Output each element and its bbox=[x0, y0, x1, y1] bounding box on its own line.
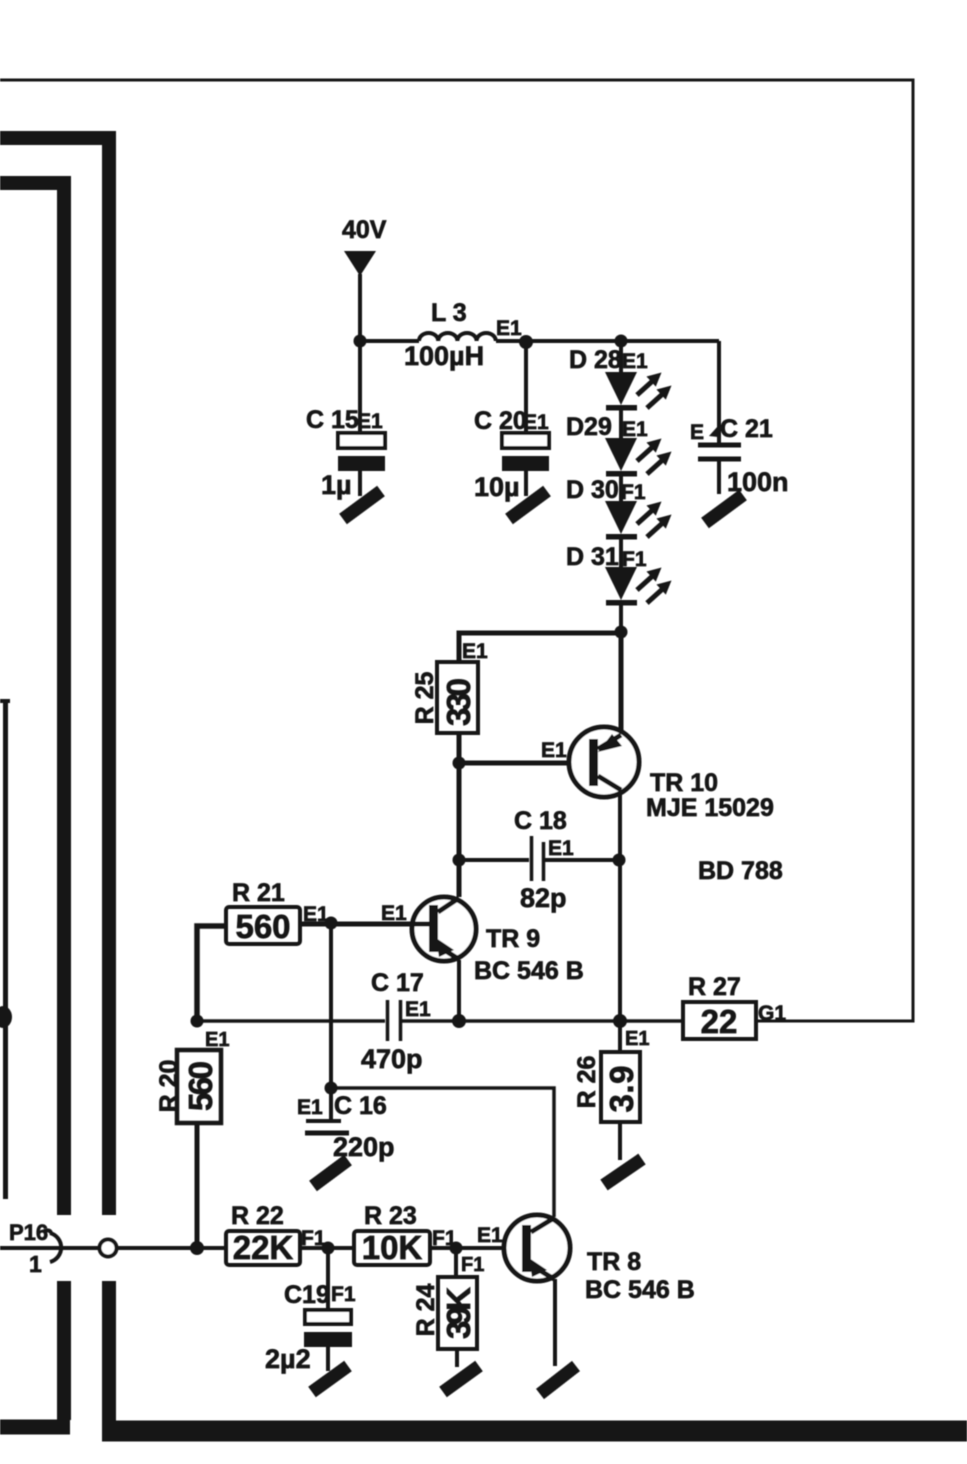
svg-text:C 15: C 15 bbox=[306, 406, 359, 434]
wire TR10 base bbox=[459, 761, 589, 766]
svg-text:2µ2: 2µ2 bbox=[265, 1344, 311, 1374]
svg-text:22K: 22K bbox=[233, 1229, 294, 1266]
svg-text:L 3: L 3 bbox=[431, 299, 467, 327]
svg-text:E1: E1 bbox=[205, 1029, 229, 1051]
svg-text:40V: 40V bbox=[342, 216, 387, 244]
svg-text:1µ: 1µ bbox=[321, 470, 352, 500]
LED D29 bbox=[566, 413, 672, 501]
wire TR10 collector bbox=[618, 790, 622, 1021]
wire LED chain top bbox=[619, 341, 623, 372]
resistor R26 bbox=[573, 1021, 649, 1160]
svg-text:1: 1 bbox=[29, 1251, 42, 1277]
svg-text:TR 10: TR 10 bbox=[650, 769, 718, 797]
svg-text:D 30: D 30 bbox=[566, 476, 619, 504]
node junction LED tap bbox=[615, 335, 628, 348]
capacitor C18 bbox=[459, 807, 613, 913]
node junction C16 tap bbox=[325, 917, 338, 930]
wire feedback row bbox=[197, 1019, 385, 1023]
svg-text:G1: G1 bbox=[758, 1002, 786, 1025]
capacitor C20 bbox=[474, 342, 549, 502]
node junction LED bottom bbox=[615, 626, 628, 639]
wire TR9 emitter down bbox=[457, 960, 461, 1021]
svg-text:E1: E1 bbox=[523, 411, 549, 434]
svg-text:E1: E1 bbox=[496, 317, 522, 340]
inner thick border line bbox=[0, 183, 70, 1427]
node junction 40V rail bbox=[354, 335, 367, 348]
ground C19 bbox=[312, 1366, 348, 1392]
svg-text:F1: F1 bbox=[331, 1283, 356, 1306]
svg-text:TR 9: TR 9 bbox=[486, 925, 540, 953]
node junction feedback left bbox=[452, 1014, 466, 1028]
transistor TR9 bbox=[412, 897, 584, 985]
capacitor C17 bbox=[361, 969, 459, 1074]
svg-text:E1: E1 bbox=[462, 640, 488, 663]
svg-text:E1: E1 bbox=[477, 1224, 503, 1247]
svg-text:TR 8: TR 8 bbox=[587, 1248, 641, 1276]
svg-text:P16: P16 bbox=[9, 1220, 48, 1245]
wire R21 right to TR9 base bbox=[300, 922, 429, 927]
svg-text:D 28: D 28 bbox=[569, 346, 622, 374]
node junction R26/R27 bbox=[613, 1014, 627, 1028]
svg-text:C 18: C 18 bbox=[514, 807, 567, 835]
wire feedback top line bbox=[0, 80, 913, 1021]
capacitor C19 bbox=[265, 1248, 356, 1374]
svg-text:F1: F1 bbox=[461, 1254, 484, 1276]
LED D30 bbox=[566, 476, 672, 567]
wire R23 to TR8 bbox=[430, 1246, 522, 1250]
connector P16 pin 1 bbox=[0, 1220, 226, 1277]
resistor R23 bbox=[354, 1202, 457, 1266]
node junction C19 tap bbox=[322, 1242, 335, 1255]
svg-text:560: 560 bbox=[182, 1061, 219, 1111]
ground C20 bbox=[509, 491, 547, 519]
svg-text:D29: D29 bbox=[566, 413, 612, 441]
svg-text:560: 560 bbox=[235, 908, 290, 945]
transistor TR8 bbox=[504, 1215, 695, 1304]
capacitor C21 bbox=[690, 341, 789, 497]
node junction C18 right bbox=[613, 854, 626, 867]
svg-text:D 31: D 31 bbox=[566, 543, 619, 571]
svg-text:E1: E1 bbox=[625, 1028, 649, 1050]
resistor R24 bbox=[412, 1248, 477, 1367]
svg-text:100µH: 100µH bbox=[404, 341, 484, 371]
svg-text:R 25: R 25 bbox=[411, 672, 439, 725]
svg-text:10µ: 10µ bbox=[474, 472, 520, 502]
svg-text:BC 546 B: BC 546 B bbox=[585, 1276, 695, 1304]
svg-text:C 21: C 21 bbox=[720, 415, 773, 443]
node junction P16 rail bbox=[190, 1241, 204, 1255]
capacitor C16 bbox=[297, 1088, 395, 1162]
wire TR9 collector vertical bbox=[457, 763, 462, 897]
power 40V bbox=[342, 216, 387, 433]
svg-text:C 20: C 20 bbox=[474, 407, 527, 435]
wire top rail bbox=[360, 339, 419, 343]
svg-text:R 26: R 26 bbox=[573, 1056, 601, 1109]
svg-text:470p: 470p bbox=[361, 1044, 423, 1074]
wire C16 node to TR8 collector bbox=[331, 1088, 554, 1217]
wire feedback row mid bbox=[459, 1019, 683, 1023]
svg-text:E1: E1 bbox=[548, 837, 574, 860]
inductor L3 bbox=[404, 299, 496, 371]
LED D28 bbox=[569, 346, 672, 438]
svg-text:R 22: R 22 bbox=[231, 1202, 284, 1230]
resistor R21 bbox=[226, 879, 329, 945]
svg-text:E1: E1 bbox=[622, 418, 648, 441]
svg-text:E1: E1 bbox=[405, 998, 431, 1021]
svg-text:E1: E1 bbox=[622, 350, 648, 373]
ground R24 bbox=[443, 1366, 479, 1392]
svg-text:C 16: C 16 bbox=[334, 1092, 387, 1120]
ground C21 bbox=[705, 495, 743, 523]
wire fragment of adjacent section at left edge bbox=[0, 701, 12, 1199]
svg-text:E1: E1 bbox=[541, 739, 567, 762]
svg-text:C 17: C 17 bbox=[371, 969, 424, 997]
svg-text:R 24: R 24 bbox=[412, 1284, 440, 1337]
svg-text:R 20: R 20 bbox=[155, 1060, 183, 1113]
svg-text:E: E bbox=[690, 421, 704, 444]
svg-text:3.9: 3.9 bbox=[603, 1066, 640, 1113]
svg-text:E1: E1 bbox=[357, 410, 383, 433]
svg-text:82p: 82p bbox=[520, 883, 567, 913]
transistor TR10 bbox=[569, 727, 774, 822]
wire R22 to R23 bbox=[300, 1246, 354, 1250]
wire R25 link bbox=[459, 633, 621, 662]
svg-text:330: 330 bbox=[440, 678, 477, 726]
node junction R25/TR9/TR10 bbox=[453, 757, 466, 770]
ground C16 bbox=[313, 1160, 348, 1186]
ground TR8 emitter bbox=[540, 1366, 576, 1394]
node junction C18 left bbox=[453, 854, 466, 867]
resistor R27 bbox=[683, 973, 786, 1040]
resistor R20 bbox=[155, 1050, 221, 1123]
node junction R24 tap bbox=[450, 1242, 463, 1255]
wire R20 bottom bbox=[195, 1124, 200, 1248]
svg-text:F1: F1 bbox=[621, 481, 646, 504]
node junction left rail bbox=[191, 1015, 204, 1028]
svg-text:R 27: R 27 bbox=[688, 973, 741, 1001]
svg-text:R 21: R 21 bbox=[232, 879, 285, 907]
svg-text:R 23: R 23 bbox=[364, 1202, 417, 1230]
ground R26 bbox=[604, 1159, 642, 1185]
resistor R25 bbox=[411, 662, 478, 733]
svg-text:10K: 10K bbox=[362, 1229, 423, 1266]
wire R25 bottom bbox=[457, 733, 462, 763]
wire LED node to TR10 emitter bbox=[619, 632, 624, 736]
svg-text:BD 788: BD 788 bbox=[698, 857, 783, 885]
svg-text:39K: 39K bbox=[440, 1287, 477, 1339]
wire TR8 emitter bbox=[553, 1279, 557, 1366]
svg-text:MJE 15029: MJE 15029 bbox=[646, 794, 774, 822]
wire C16 drop bbox=[329, 923, 333, 1088]
ground C15 bbox=[343, 491, 381, 519]
svg-text:C19: C19 bbox=[284, 1281, 330, 1309]
resistor R22 bbox=[226, 1202, 326, 1266]
node junction C16 bbox=[325, 1082, 338, 1095]
svg-text:22: 22 bbox=[701, 1003, 738, 1040]
svg-text:E1: E1 bbox=[297, 1096, 323, 1119]
capacitor C15 bbox=[306, 406, 385, 500]
node junction C20 tap bbox=[519, 335, 533, 349]
wire R21 left corner bbox=[197, 926, 226, 1021]
wire top rail right bbox=[496, 339, 719, 343]
svg-text:BC 546 B: BC 546 B bbox=[474, 957, 584, 985]
LED D31 bbox=[566, 543, 672, 632]
